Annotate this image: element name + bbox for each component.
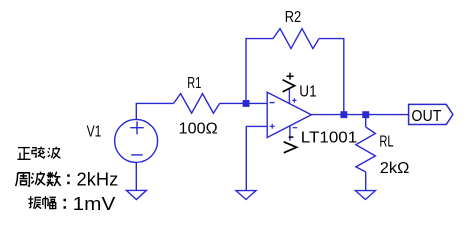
label RL: [379, 134, 393, 151]
ground (below V1): [126, 190, 146, 199]
op-amp V- pin label: [284, 137, 297, 153]
node junction B (output/R2): [340, 111, 347, 118]
op-amp V+ pin label: [283, 73, 295, 92]
label R1: [187, 75, 201, 92]
label U1: [299, 83, 316, 100]
value LT1001: [301, 129, 357, 146]
svg-text:1mV: 1mV: [73, 193, 117, 214]
svg-text:R2: R2: [285, 9, 302, 26]
wire R2 left vertical: [246, 39, 273, 104]
voltage source V1: [115, 119, 158, 162]
wire RL bottom stub: [365, 172, 367, 191]
wire op-amp output to OUT: [311, 114, 408, 116]
svg-text:LT1001: LT1001: [301, 129, 357, 146]
value 100Ω: [179, 121, 218, 138]
annotation line 1: 正弦波: [17, 147, 60, 160]
wire R2 right vertical: [319, 39, 344, 115]
svg-text:R1: R1: [187, 75, 201, 92]
annotation line 2: 周波数：2kHz: [16, 169, 119, 190]
value 2kΩ: [380, 160, 410, 177]
svg-text:2kΩ: 2kΩ: [380, 160, 410, 177]
ground (op-amp + input): [236, 191, 256, 200]
label R2: [285, 9, 302, 26]
svg-text:2kHz: 2kHz: [77, 169, 119, 190]
node junction A (R1/R2/in-): [243, 100, 250, 107]
svg-text:OUT: OUT: [411, 108, 441, 125]
op-amp V- pin stub: [290, 126, 297, 141]
label OUT: [411, 108, 441, 125]
OUT port flag: [409, 104, 453, 124]
wire V1 bottom: [135, 162, 137, 190]
svg-text:RL: RL: [379, 134, 393, 151]
resistor R2: [273, 29, 319, 49]
wire R1 to op-amp inverting input: [220, 102, 268, 104]
wire V1 top to R1: [136, 103, 173, 119]
node junction C (output/RL): [362, 111, 369, 118]
resistor R1: [174, 94, 220, 114]
wire RL top stub: [365, 115, 367, 127]
svg-text:U1: U1: [299, 83, 316, 100]
wire op-amp non-inverting input to ground: [246, 126, 267, 190]
annotation line 3: 振幅：1mV: [28, 193, 116, 214]
label V1: [87, 124, 102, 141]
ground (below RL): [355, 191, 375, 200]
svg-text:100Ω: 100Ω: [179, 121, 218, 138]
svg-text:V1: V1: [87, 124, 102, 141]
op-amp U1 triangle: [267, 92, 311, 137]
op-amp V+ pin stub: [289, 90, 296, 104]
resistor RL: [356, 127, 376, 172]
